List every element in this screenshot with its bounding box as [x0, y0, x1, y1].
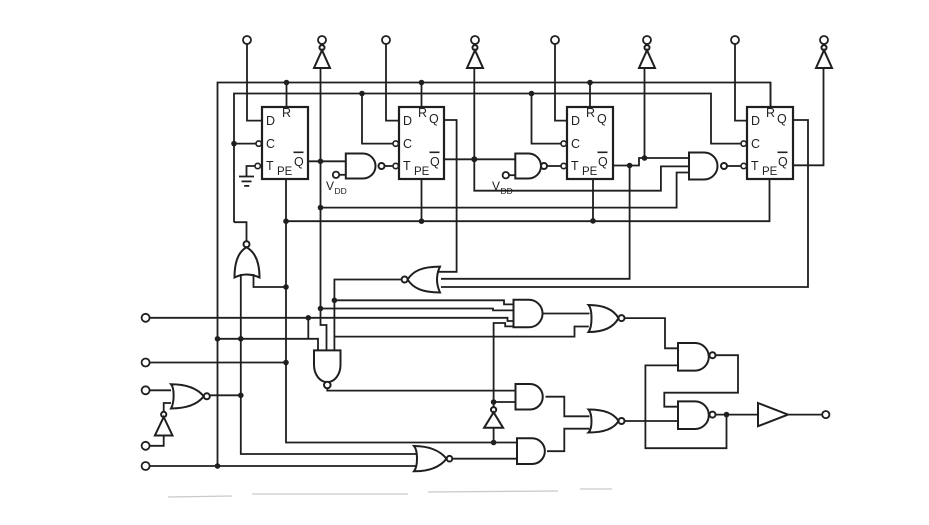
svg-text:D: D	[266, 114, 275, 128]
wire C1 input	[234, 143, 256, 145]
wire Q3bar riser to inverter T6	[644, 68, 646, 158]
nor gate G1 (left, near terminal C)	[171, 384, 210, 408]
svg-text:PE: PE	[277, 166, 293, 178]
nor gate NOR-bottom	[414, 446, 452, 471]
wire NOR-left output drop	[334, 280, 401, 351]
svg-text:Q: Q	[597, 112, 607, 126]
svg-text:C: C	[751, 137, 760, 151]
terminal 3	[382, 36, 390, 44]
wire terminal6 stem	[646, 44, 648, 45]
wire Q2bar to NAND3 input2	[474, 159, 689, 190]
svg-text:Q: Q	[430, 155, 440, 169]
wire NOR-B input2 line	[334, 327, 588, 337]
inverter above T2	[314, 45, 330, 68]
wire C2 riser	[362, 94, 393, 144]
svg-text:PE: PE	[414, 166, 430, 178]
wire AND2 out to NOR-E	[547, 429, 590, 452]
inverter above T8	[816, 45, 832, 68]
terminal 2	[318, 36, 326, 44]
nand gate G-N3	[689, 153, 727, 180]
flip-flop U3	[567, 107, 613, 179]
pin T1 bubble	[255, 163, 260, 168]
svg-text:Q: Q	[294, 155, 304, 169]
wire terminal4 stem	[474, 44, 476, 45]
wire terminal C to NOR-G1	[146, 389, 171, 391]
svg-text:R: R	[586, 106, 595, 120]
node Q3bar riser	[642, 155, 648, 161]
wire NAND3 out to T4 input	[727, 165, 740, 167]
wire inverter-mid output to AND1	[494, 402, 516, 407]
and gate AND-1	[516, 384, 543, 410]
svg-text:D: D	[751, 114, 760, 128]
svg-text:C: C	[266, 137, 275, 151]
nor gate NOR-E	[589, 410, 625, 433]
node PE1 NOR-up tap	[283, 284, 289, 290]
terminal 7	[731, 36, 739, 44]
wire NOR-up input2	[254, 274, 287, 287]
svg-text:D: D	[571, 114, 580, 128]
terminal VDD2	[503, 172, 509, 178]
pin C2 bubble	[393, 141, 398, 146]
label U2 pins	[403, 106, 440, 178]
nand gate NAND-D (latch)	[678, 401, 716, 429]
node terminal-A jam tap	[306, 315, 312, 321]
wire reset bus (top bus 1)	[218, 83, 771, 467]
wire PE3 drop	[592, 179, 594, 221]
pin C4 bubble	[741, 141, 746, 146]
terminal C	[142, 386, 150, 394]
wire NAND-C out to NAND-D input1	[664, 355, 738, 407]
wire NAND1 out to T2 input	[385, 165, 393, 167]
flip-flop U2	[399, 107, 444, 179]
svg-text:DD: DD	[335, 186, 347, 196]
svg-text:R: R	[282, 106, 291, 120]
wire Q2bar to NAND2	[444, 158, 515, 160]
wire PE bus	[286, 179, 770, 221]
wire terminal2 stem	[321, 44, 323, 45]
svg-text:DD: DD	[501, 186, 513, 196]
node PE1 on PE bus	[283, 218, 289, 224]
inverter G2 (left, above terminal D)	[155, 412, 173, 436]
wire clock line to NOR-up output	[234, 222, 247, 241]
terminal 6	[643, 36, 651, 44]
wire buffer to output terminal	[788, 414, 822, 416]
wire VDD2 to NAND2	[509, 174, 515, 176]
wire Q1bar to NAND1	[308, 160, 346, 162]
svg-text:Q: Q	[429, 112, 439, 126]
pin T2 bubble	[393, 163, 398, 168]
inverter above T6	[639, 45, 655, 68]
node R3 on reset bus	[587, 80, 593, 86]
wire Q4 drop to NOR-left input3	[441, 120, 808, 287]
nand gate NAND-down	[314, 350, 341, 388]
wire NOR-B out to NAND-C	[625, 318, 679, 348]
svg-text:D: D	[403, 114, 412, 128]
wire jam line y339	[218, 339, 319, 351]
label U1 pins	[266, 106, 304, 178]
wire terminal E line	[146, 465, 416, 467]
wire inverter-G2 out to NOR-G1	[164, 403, 171, 412]
buffer F	[758, 403, 788, 426]
terminal B	[142, 359, 150, 367]
terminal output	[822, 411, 829, 418]
wire terminal B line	[146, 362, 286, 364]
node Q1bar bus tap	[318, 205, 324, 211]
wire C3 riser	[532, 94, 561, 144]
wire L4 riser to AND-A input4	[494, 323, 514, 402]
node jam line mid	[238, 336, 244, 342]
inverter above T4	[467, 45, 483, 68]
node Q2bar	[471, 156, 477, 162]
svg-text:T: T	[266, 159, 274, 173]
wire Q2bar riser to inverter T4	[473, 68, 475, 159]
node reset E-line junction	[215, 463, 221, 469]
wire Q3bar drop to NOR-left input2	[441, 166, 630, 279]
and gate AND-2	[517, 438, 545, 464]
wire Q1bar drop to NAND-down	[321, 161, 327, 350]
node C1 on clock vertical	[231, 141, 237, 147]
wire T1 ground lead	[247, 166, 255, 177]
terminal E	[142, 462, 150, 470]
terminal 4	[471, 36, 479, 44]
label U3 pins	[571, 106, 608, 178]
ground	[239, 177, 254, 186]
pin T3 bubble	[561, 163, 566, 168]
wire NOR-G1 output	[210, 394, 241, 396]
terminal 1	[243, 36, 251, 44]
wire NAND-D out to buffer	[716, 414, 759, 416]
terminal A	[142, 314, 150, 322]
wire jam drop x308	[307, 318, 309, 339]
inverter mid (pointing up)	[484, 407, 503, 428]
nand gate G-N1	[346, 154, 385, 179]
wire R2 riser	[421, 83, 423, 108]
svg-text:Q: Q	[778, 155, 788, 169]
node PE1 terminal-B junction	[283, 360, 289, 366]
pin C3 bubble	[561, 141, 566, 146]
node NAND-D output	[724, 412, 730, 418]
svg-text:C: C	[571, 137, 580, 151]
wire NOR-bottom out to AND2	[452, 458, 517, 460]
wire Q3bar to NAND3 input1	[613, 158, 689, 166]
node C3 riser on clock bus	[529, 91, 535, 97]
terminal 5	[551, 36, 559, 44]
nand gate NAND-C (latch)	[678, 343, 716, 371]
wire Q1bar riser to inverter T2	[320, 68, 322, 161]
nor gate NOR-left (mirrored)	[402, 267, 440, 293]
wire R4 drop	[770, 83, 772, 108]
node Q3bar	[627, 163, 633, 169]
wire L2 to AND-A input2	[321, 309, 514, 311]
wire terminal1 to D1	[247, 44, 262, 121]
terminal D	[142, 442, 150, 450]
wire inverter-G2 input from terminal D	[146, 436, 164, 446]
nor gate NOR-B	[589, 305, 625, 332]
wire terminal A line to AND-A	[146, 318, 514, 321]
node PE3 on PE bus	[590, 218, 596, 224]
svg-text:PE: PE	[582, 166, 598, 178]
wire R3 riser	[589, 83, 591, 108]
label VDD2	[492, 179, 513, 196]
terminal 8	[820, 36, 828, 44]
wire terminal5 to D3	[555, 44, 567, 121]
label VDD1	[326, 179, 347, 196]
svg-text:Q: Q	[598, 155, 608, 169]
svg-text:V: V	[492, 179, 500, 193]
node C2 riser on clock bus	[359, 91, 365, 97]
node NOR-left output L1 tap	[332, 298, 338, 304]
node Q1bar	[318, 159, 324, 165]
and gate AND-A	[514, 300, 543, 328]
svg-text:V: V	[326, 179, 334, 193]
node NOR-G1 output	[238, 393, 244, 399]
node Q1bar L2 tap	[318, 306, 324, 312]
svg-text:T: T	[403, 159, 411, 173]
wire terminal3 to D2	[386, 44, 399, 121]
node R2 on reset bus	[419, 80, 425, 86]
terminal VDD1	[333, 172, 339, 178]
wire Q4bar riser to inverter T8	[793, 68, 824, 165]
wire PE2 drop	[421, 179, 423, 221]
node inverter-mid input	[491, 440, 497, 446]
wire NAND3 input3 from Q1bar bus	[321, 173, 690, 208]
node R1 on reset bus	[284, 80, 290, 86]
wire terminal7 to D4	[735, 44, 747, 121]
node jam line left	[215, 336, 221, 342]
wire NAND-down output to AND1	[327, 388, 515, 390]
flip-flop U1	[262, 107, 308, 179]
wire R1 riser	[286, 83, 288, 108]
wire Q2 drop to NOR-left input1	[437, 120, 457, 272]
wire terminal8 stem	[823, 44, 825, 45]
svg-text:R: R	[418, 106, 427, 120]
svg-text:C: C	[403, 137, 412, 151]
node inverter-mid output	[491, 399, 497, 405]
nand gate G-N2	[515, 154, 547, 179]
wire L1 to AND-A input1	[334, 300, 513, 304]
pin T4 bubble	[741, 163, 746, 168]
wire NOR-up input1	[241, 274, 416, 454]
wire NAND2 out to T3 input	[547, 165, 561, 167]
wire inverter-mid input	[493, 428, 495, 443]
svg-text:R: R	[766, 106, 775, 120]
wire clock bus (top bus 2)	[234, 94, 740, 223]
wire AND1 out to NOR-E	[546, 397, 590, 417]
svg-text:PE: PE	[762, 166, 778, 178]
wire latch feedback to NAND-C input2	[645, 365, 726, 448]
wire NOR-E out to NAND-D	[625, 420, 679, 422]
node PE2 on PE bus	[419, 218, 425, 224]
flip-flop U4	[747, 107, 793, 179]
wire AND-A out to NOR-B	[543, 313, 590, 315]
wire PE1 vertical	[286, 179, 517, 443]
wire VDD1 to NAND1	[339, 174, 346, 176]
svg-text:T: T	[751, 159, 759, 173]
svg-text:T: T	[571, 159, 579, 173]
scan smudges	[168, 489, 612, 497]
svg-text:Q: Q	[777, 112, 787, 126]
label U4 pins	[751, 106, 788, 178]
pin C1 bubble	[256, 141, 261, 146]
nor gate NOR-up (clock driver)	[235, 241, 260, 277]
